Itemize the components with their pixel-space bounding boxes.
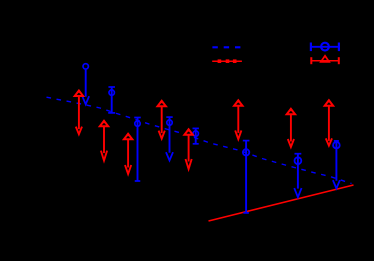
red point R2: [100, 119, 108, 160]
legend blue dashed sample: [212, 46, 240, 48]
blue point B1: [82, 64, 89, 105]
red solid model line: [209, 185, 354, 221]
legend red errorbar sample: [311, 55, 339, 64]
red point R7: [287, 107, 295, 147]
blue point B8: [333, 141, 340, 189]
blue point B6: [243, 141, 250, 213]
blue point B5: [193, 128, 199, 143]
legend blue errorbar sample: [311, 43, 339, 52]
red point R5: [184, 128, 192, 169]
red point R1: [75, 89, 83, 134]
red point R6: [234, 99, 242, 139]
red point R3: [124, 132, 132, 174]
blue point B2: [108, 87, 115, 113]
blue point B7: [294, 154, 301, 198]
blue dashed model curve: [47, 97, 352, 183]
legend red dash-dot sample: [212, 59, 242, 63]
blue point B4: [166, 117, 173, 160]
blue point B3: [134, 118, 141, 182]
red point R8: [325, 99, 333, 146]
red point R4: [158, 99, 166, 138]
